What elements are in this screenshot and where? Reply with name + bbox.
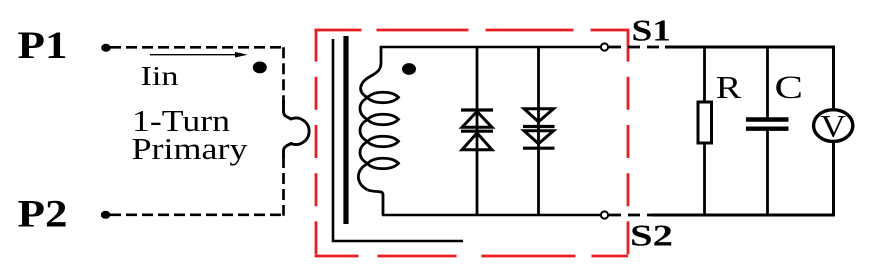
node P2 terminal dot (101, 211, 111, 219)
svg-text:P2: P2 (18, 193, 68, 236)
voltmeter V bottom wire (832, 142, 835, 217)
CT module boundary red dashed box right (627, 29, 630, 258)
node P1 terminal dot (101, 44, 111, 52)
CT module boundary red dashed box left (315, 29, 318, 258)
diode branch D1 D2 wire (476, 47, 479, 215)
svg-text:Primary: Primary (132, 131, 249, 166)
voltmeter V body (814, 110, 853, 142)
CT module boundary red dashed box bottom (315, 255, 629, 258)
capacitor C bottom plate (746, 126, 789, 130)
wire secondary top rail (380, 46, 601, 49)
svg-text:S2: S2 (630, 218, 673, 253)
diode D2 (up) (461, 130, 493, 133)
diode D4 (down) (524, 131, 554, 144)
wire primary 1-turn hump (284, 100, 310, 158)
capacitor C top wire (766, 47, 769, 118)
wire P1 dashed (110, 46, 285, 49)
svg-text:S1: S1 (632, 13, 672, 48)
transformer T1 shield line (333, 39, 463, 241)
node S1 terminal (601, 43, 608, 50)
resistor R body (698, 102, 712, 143)
wire primary vertical dashed upper (282, 47, 285, 102)
diode branch D3 D4 wire (537, 47, 540, 215)
wire S2 dashed (609, 214, 660, 217)
CT module boundary red dashed box top (315, 29, 629, 32)
capacitor C bottom wire (766, 131, 769, 216)
wire primary vertical dashed lower (282, 157, 285, 216)
wire S1 dashed (609, 46, 667, 49)
svg-text:Iin: Iin (141, 60, 179, 91)
svg-text:R: R (716, 70, 742, 105)
wire P2 dashed (110, 213, 285, 216)
wire output top rail (665, 46, 835, 49)
voltmeter V top wire (832, 46, 835, 111)
svg-text:P1: P1 (18, 24, 68, 67)
polarity dot secondary (402, 63, 416, 75)
capacitor C top plate (746, 117, 789, 121)
node S2 terminal (601, 211, 608, 218)
current arrow Iin (150, 54, 237, 56)
transformer T1 core bar (343, 36, 348, 224)
svg-text:V: V (820, 108, 846, 144)
transformer T1 secondary winding coil (358, 46, 398, 215)
wire secondary bottom rail (382, 214, 601, 217)
wire output bottom rail (652, 214, 835, 217)
svg-text:C: C (775, 70, 804, 106)
diode D3 (down) (524, 109, 554, 122)
polarity dot primary (253, 62, 267, 74)
diode D1 (up) (461, 108, 493, 111)
resistor R bottom wire (703, 143, 706, 215)
resistor R top wire (703, 47, 706, 103)
